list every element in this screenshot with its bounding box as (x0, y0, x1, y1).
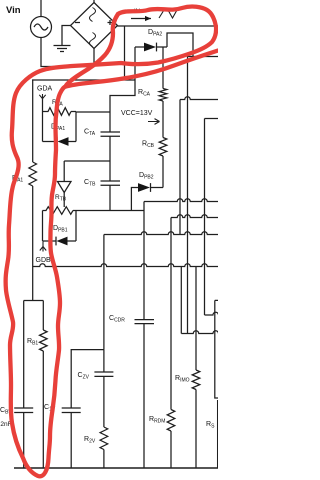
svg-text:GDA: GDA (37, 86, 53, 93)
current arrow IN (131, 18, 151, 20)
capacitor C_2V (94, 350, 113, 427)
svg-text:CTB: CTB (84, 179, 96, 188)
resistor R_CA (159, 89, 167, 102)
svg-text:VCC=13V: VCC=13V (121, 110, 153, 117)
lamp box top (24, 300, 44, 302)
wire bridge left to ground (62, 26, 71, 46)
wire D_PA2 cathode jog up-right (167, 33, 193, 57)
rail x180 (179, 100, 181, 235)
svg-text:CTA: CTA (84, 129, 96, 138)
capacitor C_B (14, 301, 33, 469)
resistor R_TB (43, 207, 77, 215)
wire bridge bottom stub (93, 49, 95, 67)
bridge plus (108, 20, 113, 25)
ground (54, 46, 71, 52)
wire H1 (144, 199, 218, 202)
diode D_PA1 (43, 141, 77, 143)
resistor R_A1 (29, 162, 37, 186)
wire top-right rail from bridge + (118, 25, 219, 27)
rail R_IMO (195, 267, 197, 469)
wire source bottom (41, 37, 94, 67)
wire GDA stem (42, 99, 44, 112)
svg-text:RRDM: RRDM (149, 416, 165, 425)
rail x204 (204, 119, 206, 316)
wire horizontal to GDA left rail (32, 79, 135, 81)
resistor R_TA (43, 108, 77, 116)
wire mid right (181, 331, 218, 334)
wire top right corner (188, 56, 219, 58)
bridge ~ top (90, 8, 96, 22)
svg-text:RB1: RB1 (27, 338, 38, 347)
svg-text:Vin: Vin (6, 5, 21, 16)
wire x204 to right edge (205, 312, 219, 315)
wire R_CA to R_CB (162, 101, 164, 138)
capacitor C_TB (101, 161, 121, 211)
wire H3 (104, 232, 218, 235)
wire TA loop left (42, 112, 44, 142)
bus R_TB output (76, 210, 144, 212)
vcc arrow (148, 119, 160, 125)
bridge ~ bottom (90, 33, 96, 47)
svg-text:DPA1: DPA1 (51, 124, 65, 133)
red marker loop (6, 7, 218, 477)
wire TA loop right (75, 112, 77, 142)
diode D_PB1 (43, 240, 77, 242)
wire buffer out (63, 193, 65, 208)
wire to C_TA (76, 111, 110, 113)
wire top from Vin source (40, 0, 42, 17)
wire anode rail down from top (124, 26, 126, 80)
svg-text:R2V: R2V (84, 436, 96, 445)
rail R_B1 (42, 301, 44, 469)
wire right vcc stub (180, 97, 218, 100)
resistor R_IMO (192, 370, 200, 390)
svg-text:RCA: RCA (138, 89, 151, 98)
svg-text:RCB: RCB (142, 141, 155, 150)
capacitor C_TA (101, 112, 121, 161)
svg-text:DPA2: DPA2 (148, 29, 162, 38)
wire GDB bus (33, 264, 218, 267)
AC source V1 (31, 17, 52, 38)
capacitor C_CDR (135, 320, 155, 324)
svg-text:DPB1: DPB1 (53, 225, 68, 234)
diode D_PA2 (135, 46, 167, 48)
bridge minus (75, 22, 80, 24)
diode D_PB2 (131, 188, 163, 211)
svg-text:CCDR: CCDR (109, 315, 125, 324)
wire right edge y118 (205, 118, 219, 120)
rail right edge (217, 400, 219, 468)
svg-text:RIMO: RIMO (175, 375, 190, 384)
wire R_CB bottom (162, 156, 164, 188)
red marker top-left closure (66, 14, 118, 86)
bottom bus (14, 467, 218, 469)
rail left outer (32, 80, 34, 162)
partial symbol under red (159, 10, 177, 18)
capacitor C_1V (62, 408, 81, 468)
port arrow GDB (40, 241, 46, 252)
bridge rectifier BR1 (71, 3, 118, 49)
resistor R_B1 (40, 330, 48, 351)
wire H2 (171, 215, 218, 218)
wire D_PA2 anode down-left jog (110, 47, 135, 112)
svg-text:CZV: CZV (78, 372, 90, 381)
svg-text:RS: RS (206, 421, 215, 430)
rail x215 (215, 300, 218, 398)
resistor R_CB (159, 138, 167, 157)
buffer triangle U1 (63, 161, 65, 182)
wire C mid tee left (64, 160, 110, 162)
port arrow GDA (39, 94, 45, 99)
rail C_2V branch (103, 235, 105, 350)
rail x181 lower (180, 267, 182, 334)
svg-text:RTB: RTB (55, 194, 67, 203)
rail R_RDM (170, 218, 172, 469)
svg-text:DPB2: DPB2 (139, 172, 154, 181)
wire TB loop left (42, 211, 44, 242)
svg-text:GDB: GDB (36, 257, 52, 264)
resistor R_RDM (167, 410, 175, 432)
resistor R_2V (100, 427, 108, 450)
rail C_CDR (143, 202, 145, 235)
rail x187 (187, 57, 189, 334)
wire TB loop right (75, 211, 77, 242)
wire R_CA top (162, 47, 164, 89)
